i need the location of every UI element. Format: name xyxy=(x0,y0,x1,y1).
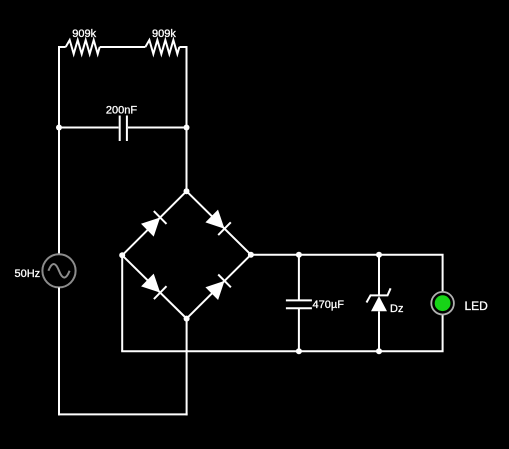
LED (lit, green) xyxy=(431,292,488,315)
node bridge left vertex xyxy=(119,252,125,258)
node cap-row left junction xyxy=(56,125,62,131)
diode D3 xyxy=(141,274,166,300)
wire between R1 and R2 xyxy=(100,46,146,48)
node zener top junction xyxy=(376,252,382,258)
wire DC- bottom rail xyxy=(121,315,442,351)
diode D2 xyxy=(205,210,230,236)
node cap-row right junction xyxy=(184,125,190,131)
wire capacitor row right xyxy=(128,127,187,129)
wire top horizontal (right segment) xyxy=(179,46,187,48)
resistor R1 909k xyxy=(66,28,100,54)
wire DC+ top rail xyxy=(251,255,443,292)
node C2 bottom junction xyxy=(296,348,302,354)
wire capacitor C2 bottom lead xyxy=(298,308,300,351)
node bridge right vertex xyxy=(248,252,254,258)
wire bridge arm left-bottom xyxy=(122,255,186,318)
wire bridge arm left-top xyxy=(122,191,186,255)
wire bridge arm bottom-right xyxy=(187,255,251,319)
node bridge bottom vertex xyxy=(184,316,190,322)
wire top horizontal (left segment) xyxy=(59,46,66,48)
node zener bottom junction xyxy=(376,348,382,354)
wire bridge bottom vertex drop xyxy=(186,319,188,416)
node bridge top vertex xyxy=(184,188,190,194)
zener diode Dz xyxy=(367,288,404,315)
wire left vertical (AC source to bottom wire) xyxy=(58,288,60,416)
svg-text:909k: 909k xyxy=(72,28,96,40)
wire right vertical (top to bridge) xyxy=(186,46,188,191)
svg-text:200nF: 200nF xyxy=(106,105,137,117)
voltage source V1 50Hz AC xyxy=(15,254,76,287)
capacitor C2 470uF xyxy=(286,299,344,311)
svg-text:LED: LED xyxy=(465,299,489,313)
wire zener top lead xyxy=(378,255,380,296)
wire capacitor C2 top lead xyxy=(298,255,300,301)
svg-text:470µF: 470µF xyxy=(313,299,345,311)
svg-text:909k: 909k xyxy=(152,28,176,40)
capacitor C1 200nF xyxy=(106,105,137,142)
wire zener bottom lead xyxy=(378,311,380,351)
resistor R2 909k xyxy=(145,28,179,54)
node C2 top junction xyxy=(296,252,302,258)
diode D1 xyxy=(141,211,167,237)
wire capacitor row left xyxy=(59,127,119,129)
wire bottom return (to AC source) xyxy=(58,413,188,415)
svg-text:Dz: Dz xyxy=(390,303,403,315)
wire bridge left vertex drop xyxy=(121,255,123,351)
diode D4 xyxy=(205,275,231,301)
wire left vertical (top corner to AC source) xyxy=(58,46,60,254)
wire bridge arm top-right xyxy=(187,191,251,255)
svg-text:50Hz: 50Hz xyxy=(15,268,41,280)
